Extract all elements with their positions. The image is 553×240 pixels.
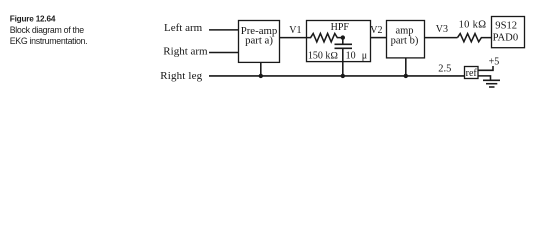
wire ref ground stub bbox=[478, 76, 491, 80]
wire V2 bbox=[371, 37, 387, 39]
junction dot resistor/cap bbox=[341, 35, 345, 39]
wire capacitor to rail bbox=[342, 48, 344, 76]
wire Right leg bottom rail bbox=[209, 75, 465, 77]
svg-text:Left arm: Left arm bbox=[164, 22, 203, 34]
svg-text:+5: +5 bbox=[489, 57, 500, 68]
wire ref +5 stub bbox=[478, 66, 493, 70]
wire Left arm to Pre-amp bbox=[209, 29, 239, 31]
svg-text:V2: V2 bbox=[370, 25, 382, 36]
junction dot pre-amp/rail bbox=[259, 74, 263, 78]
svg-text:10: 10 bbox=[346, 50, 356, 61]
wire V3 bbox=[425, 37, 458, 39]
svg-text:2.5: 2.5 bbox=[438, 63, 451, 74]
junction dot cap/rail bbox=[341, 74, 345, 78]
svg-text:part b): part b) bbox=[391, 36, 419, 47]
capacitor plate top bbox=[335, 43, 353, 45]
resistor 10 kOhm bbox=[458, 34, 492, 42]
capacitor plate bottom bbox=[335, 47, 353, 49]
svg-text:part a): part a) bbox=[245, 34, 273, 46]
block HPF box bbox=[307, 21, 371, 62]
wire V1 bbox=[280, 37, 307, 39]
block Pre-amp part a) bbox=[239, 21, 280, 63]
svg-text:V3: V3 bbox=[436, 24, 448, 35]
svg-text:HPF: HPF bbox=[331, 22, 350, 33]
svg-text:V1: V1 bbox=[289, 25, 301, 36]
svg-text:10 kΩ: 10 kΩ bbox=[459, 20, 487, 31]
svg-text:Right leg: Right leg bbox=[160, 70, 202, 82]
svg-text:9S12: 9S12 bbox=[495, 21, 517, 32]
ground symbol bbox=[483, 79, 500, 81]
svg-text:PAD0: PAD0 bbox=[493, 33, 519, 44]
wire Pre-amp bottom to rail bbox=[260, 62, 262, 76]
wire Right arm to Pre-amp bbox=[209, 52, 239, 54]
junction dot amp/rail bbox=[404, 74, 408, 78]
resistor 150 kOhm bbox=[307, 34, 343, 42]
wire amp bottom to rail bbox=[405, 58, 407, 76]
block ref bbox=[465, 67, 479, 79]
svg-text:Figure 12.64: Figure 12.64 bbox=[10, 14, 56, 23]
svg-text:150 kΩ: 150 kΩ bbox=[308, 50, 339, 61]
capacitor 10u stub top bbox=[342, 38, 344, 45]
svg-text:μ: μ bbox=[362, 50, 367, 61]
svg-text:Right arm: Right arm bbox=[163, 45, 208, 57]
svg-text:EKG instrumentation.: EKG instrumentation. bbox=[10, 36, 88, 46]
svg-text:Block diagram of the: Block diagram of the bbox=[10, 25, 85, 35]
svg-text:ref: ref bbox=[466, 68, 478, 79]
block amp part b) bbox=[387, 21, 425, 58]
block 9S12 PAD0 bbox=[492, 17, 525, 48]
